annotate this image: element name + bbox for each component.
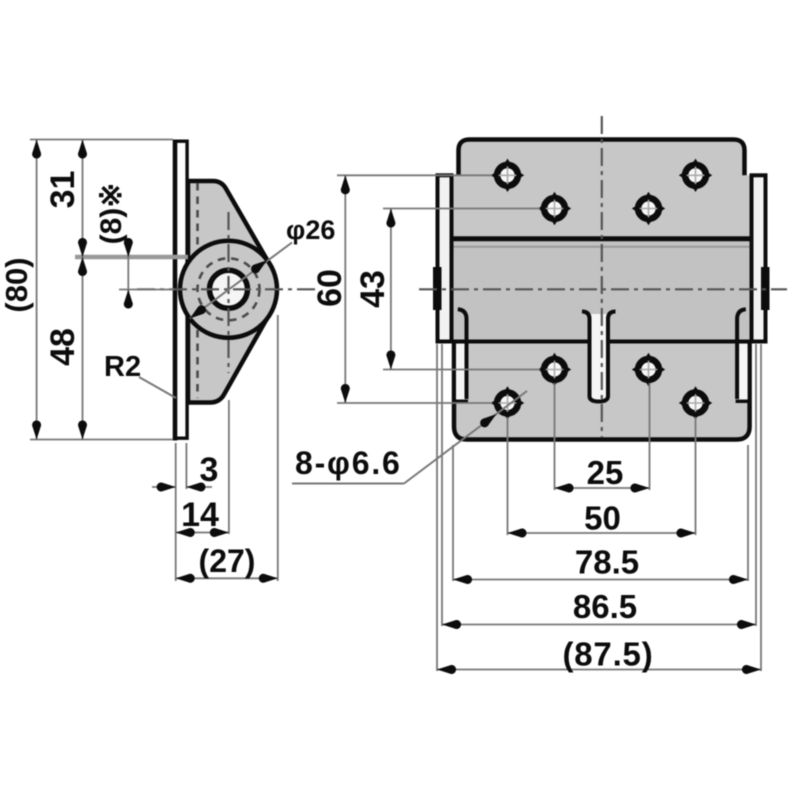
dimension 60 xyxy=(311,175,350,403)
svg-text:78.5: 78.5 xyxy=(575,544,639,581)
svg-text:3: 3 xyxy=(200,451,219,489)
right spring hook xyxy=(736,309,748,401)
dimension 3 xyxy=(152,451,218,492)
vertical centerline of boss xyxy=(227,212,229,373)
center slot white gap xyxy=(590,314,609,402)
svg-text:43: 43 xyxy=(354,270,392,308)
bottom extension line from plate right face xyxy=(185,443,187,489)
bottom extension line from bracket vertex xyxy=(277,315,279,581)
label 48 xyxy=(44,328,82,366)
dimension 14 xyxy=(176,496,229,537)
svg-text:(8)※: (8)※ xyxy=(95,183,128,245)
bottom extension line from hole center xyxy=(228,400,230,534)
dimension (80) xyxy=(0,140,41,440)
barrel thin joint line xyxy=(452,246,752,248)
svg-text:8-φ6.6: 8-φ6.6 xyxy=(295,445,402,481)
left spring hook xyxy=(456,309,468,401)
upper leaf outline xyxy=(459,140,745,176)
extension line bottom (y=439.5) xyxy=(30,439,173,441)
R2 label xyxy=(104,351,141,383)
lower leaf top edge xyxy=(438,340,766,344)
vertical centerline front view xyxy=(601,116,603,437)
bottom extension lines right view xyxy=(437,344,761,671)
dimension (27) xyxy=(176,543,278,583)
dimension 78.5 xyxy=(453,544,748,585)
thick gray extension line (y=257) xyxy=(75,255,188,260)
lower leaf outline xyxy=(454,342,750,440)
barrel top edge xyxy=(452,236,752,241)
svg-text:φ26: φ26 xyxy=(286,215,335,245)
dimension 43 xyxy=(354,209,395,370)
R2 leader xyxy=(139,377,176,398)
dimension 50 xyxy=(508,500,696,538)
extension lines for 60 dim xyxy=(337,175,492,403)
horizontal centerline hinge axis xyxy=(419,288,787,290)
bracket left boundary along plate xyxy=(187,181,190,403)
center slot / spring hooks xyxy=(582,312,616,402)
boss circle phi26 xyxy=(180,241,277,338)
dashed spring circle xyxy=(198,258,260,320)
phi26 diameter leader line xyxy=(187,243,292,323)
hinge silhouette gray fill xyxy=(438,140,766,440)
extension line top (y=139.5) xyxy=(30,139,173,141)
thin extension line at hinge axis (y=289.5) xyxy=(119,289,174,291)
mounting plate (edge-on) xyxy=(175,140,187,441)
dimension 25 xyxy=(555,454,650,493)
dimension 31 / 48 line xyxy=(78,140,87,440)
svg-text:25: 25 xyxy=(587,454,624,491)
8 mounting holes xyxy=(491,159,524,192)
label 31 xyxy=(44,171,82,209)
dimension 86.5 xyxy=(442,588,756,629)
svg-text:50: 50 xyxy=(584,500,621,537)
svg-text:14: 14 xyxy=(181,496,219,534)
dimension (8) with note mark xyxy=(95,183,133,309)
left side slot white gap xyxy=(456,344,465,400)
side bracket gray body xyxy=(188,181,276,403)
right side slot white gap xyxy=(739,344,748,400)
bottom extension line from plate left face xyxy=(175,443,177,581)
left pin end xyxy=(433,267,442,310)
svg-text:31: 31 xyxy=(44,171,82,209)
8-phi6.6 hole callout xyxy=(292,391,527,484)
hidden dashed line behind bracket xyxy=(196,183,199,398)
svg-text:(27): (27) xyxy=(199,543,256,579)
svg-text:(80): (80) xyxy=(0,257,34,312)
right barrel end cap tab xyxy=(752,175,766,341)
svg-text:86.5: 86.5 xyxy=(573,588,637,625)
svg-text:R2: R2 xyxy=(104,351,141,383)
horizontal centerline left view xyxy=(137,288,320,290)
barrel band slightly darker xyxy=(452,241,750,340)
phi26 label xyxy=(286,215,335,245)
left barrel end cap tab xyxy=(438,175,452,341)
svg-text:48: 48 xyxy=(44,328,82,366)
dimension (87.5) xyxy=(437,636,761,675)
extension lines for 43 dim xyxy=(383,209,540,370)
pin hole circle xyxy=(210,270,248,308)
svg-text:(87.5): (87.5) xyxy=(562,636,653,673)
svg-text:60: 60 xyxy=(311,269,349,307)
right pin end xyxy=(761,267,770,310)
